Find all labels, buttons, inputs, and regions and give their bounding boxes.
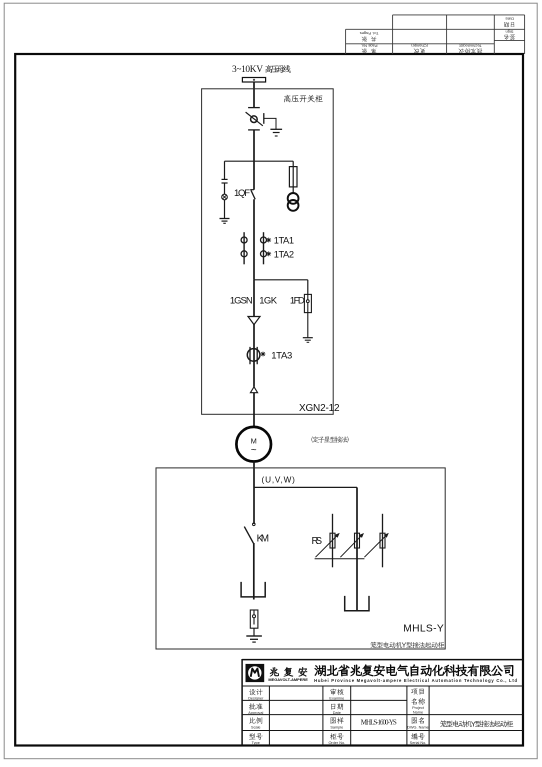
polarity star 1TA2 [266, 251, 271, 256]
svg-text:1GSN: 1GSN [230, 295, 253, 306]
svg-text:1TA2: 1TA2 [274, 250, 294, 260]
svg-text:Date: Date [505, 16, 514, 21]
wire cabinet exit to motor [253, 393, 255, 427]
svg-text:1FD: 1FD [290, 295, 305, 306]
wire junction to breaker [253, 161, 255, 190]
RS resistor body left [330, 533, 335, 548]
junction3 bar [254, 486, 357, 488]
fork terminal left [241, 582, 265, 597]
wire motor to starter box [253, 462, 255, 525]
earth switch bar [263, 113, 265, 124]
zero sequence CT 1TA3 bars [250, 347, 257, 364]
wire left branch [224, 161, 226, 179]
svg-text:笼型电动机Y型接法起动柜: 笼型电动机Y型接法起动柜 [440, 719, 515, 728]
PT fuse body [292, 167, 294, 193]
plug-in contact triangle [250, 387, 257, 393]
svg-text:~: ~ [251, 445, 257, 456]
svg-text:Approval: Approval [248, 711, 263, 715]
breaker 1QF contact tick [250, 189, 254, 191]
svg-text:XGN2-12: XGN2-12 [299, 403, 340, 414]
capacitor plates (live-line indicator coupling) [222, 179, 228, 183]
title block left line [241, 659, 243, 746]
wire to 1FD [307, 280, 309, 295]
RS resistor line left [332, 514, 334, 568]
revision cell: date [503, 16, 515, 28]
svg-text:(U,V,W): (U,V,W) [262, 476, 296, 485]
junction2 bar [254, 279, 308, 281]
svg-text:湖北省兆复安电气自动化科技有限公司: 湖北省兆复安电气自动化科技有限公司 [314, 662, 515, 679]
wire breaker to junction2 [253, 199, 255, 279]
RS arrow right [364, 535, 387, 558]
wire disconnector to junction [253, 130, 255, 161]
RS resistor body mid [355, 533, 360, 548]
wire RS branch [356, 487, 358, 610]
svg-text:Name: Name [413, 711, 423, 715]
logo square [246, 664, 265, 682]
revision table grid [346, 15, 525, 54]
svg-text:Page No.: Page No. [361, 43, 378, 48]
wire busbar to disconnector [253, 82, 255, 108]
svg-text:Serial No.: Serial No. [410, 741, 427, 745]
svg-text:Order No.: Order No. [328, 741, 345, 745]
svg-text:1QF: 1QF [234, 188, 250, 199]
wire KM to fork [253, 543, 255, 600]
svg-text:1TA1: 1TA1 [274, 236, 294, 246]
contactor 1GK triangle [248, 317, 260, 325]
1TA3 circle [247, 349, 260, 362]
RS resistor body right [380, 533, 385, 548]
wire to indicator [224, 183, 226, 194]
svg-text:高压开关柜: 高压开关柜 [283, 94, 323, 104]
surge arrester body [253, 610, 255, 614]
svg-text:MHLS-1600-YS: MHLS-1600-YS [361, 719, 397, 727]
svg-text:Sample: Sample [330, 725, 343, 729]
svg-text:项目: 项目 [411, 688, 425, 697]
svg-text:Tol. Pages: Tol. Pages [360, 31, 379, 36]
breaker 1QF blade [251, 190, 255, 199]
RS arrow mid [340, 535, 362, 557]
revision cell: sign [503, 29, 515, 41]
svg-text:(Change): (Change) [411, 43, 428, 48]
revision cell: total pages [360, 31, 379, 43]
HV cabinet box XGN2-12 [202, 89, 334, 415]
svg-text:Examine: Examine [329, 696, 344, 700]
RS arrow left [316, 535, 339, 558]
CT secondary line left [243, 232, 245, 264]
polarity star 1TA3 [261, 352, 266, 357]
ground left branch [220, 219, 230, 224]
contactor KM contact dot [253, 523, 256, 526]
disconnector top contact tick [248, 107, 260, 109]
svg-text:Scale: Scale [251, 725, 261, 729]
svg-text:MEGAVOLT-AMPERE: MEGAVOLT-AMPERE [268, 677, 308, 682]
svg-text:1GK: 1GK [259, 295, 278, 306]
svg-text:Date: Date [333, 711, 341, 715]
revision cell: technology [458, 43, 482, 55]
disconnector bottom contact tick [248, 129, 260, 131]
starter cabinet box MHLS-Y [156, 468, 445, 649]
wire indicator to ground [224, 200, 226, 219]
RS link bar [315, 558, 365, 560]
svg-text:Sign: Sign [505, 29, 513, 34]
live-line indicator lamp [222, 194, 228, 200]
svg-text:笼型电动机Y型接法起动柜: 笼型电动机Y型接法起动柜 [370, 642, 445, 650]
fork terminal right [345, 596, 369, 611]
1FD arrester body [307, 294, 309, 299]
wire arrester to ground [253, 628, 255, 636]
motor M circle [236, 427, 271, 462]
svg-text:1TA3: 1TA3 [271, 351, 292, 362]
earth switch wire [264, 118, 276, 129]
svg-text:Type: Type [252, 741, 260, 745]
CT secondary line right [263, 232, 265, 264]
wire junction2 to cabinet exit [253, 280, 255, 387]
busbar tap dot [253, 79, 255, 81]
svg-text:3~10KV: 3~10KV [232, 65, 263, 75]
CT circles 1TA1 row [241, 237, 247, 243]
RS resistor line right [382, 514, 384, 568]
svg-text:高压母线: 高压母线 [265, 64, 292, 75]
revision cell: page no [361, 43, 378, 55]
polarity star 1TA1 [266, 238, 271, 243]
earth switch ground [270, 129, 282, 136]
svg-text:Project: Project [412, 706, 425, 710]
svg-text:Hubei Province Megavolt-ampere: Hubei Province Megavolt-ampere Electrica… [314, 678, 517, 683]
svg-text:Technologist: Technologist [459, 43, 482, 48]
svg-text:RS: RS [312, 536, 323, 547]
contactor KM blade [244, 527, 253, 544]
title block top line [242, 659, 523, 661]
revision cell: change [411, 43, 428, 55]
svg-text:（定子星型接法）: （定子星型接法） [307, 435, 354, 444]
svg-text:KM: KM [257, 534, 269, 545]
voltage transformer PT circles [288, 193, 299, 204]
title block grid [242, 686, 523, 746]
svg-text:Designer: Designer [248, 696, 264, 700]
svg-text:DWG. Name: DWG. Name [407, 725, 429, 729]
ground KM branch [246, 636, 262, 642]
wire right branch to fuse [292, 161, 294, 166]
svg-text:MHLS-Y: MHLS-Y [403, 624, 444, 635]
busbar bar [242, 78, 265, 83]
CT circles 1TA2 row [241, 251, 247, 257]
disconnector circle [251, 116, 258, 123]
ground 1FD [303, 338, 313, 343]
junction bar node [225, 160, 294, 162]
disconnector blade [246, 112, 263, 126]
